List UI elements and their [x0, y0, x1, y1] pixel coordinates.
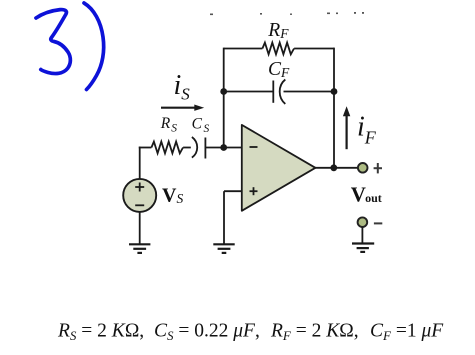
svg-text:iF: iF: [357, 112, 377, 148]
svg-text:CF: CF: [268, 59, 290, 80]
label minus at negative terminal: [374, 222, 382, 224]
wire: source top vertical: [139, 147, 141, 180]
node: inverting input junction dot: [220, 144, 227, 151]
node: output junction dot: [330, 164, 337, 171]
wire: source bottom vertical: [139, 212, 141, 244]
source VS circle: [123, 179, 156, 212]
svg-text:CF =1 μF: CF =1 μF: [370, 321, 444, 344]
svg-text:iS: iS: [174, 70, 191, 104]
svg-text:RF = 2 KΩ,: RF = 2 KΩ,: [270, 321, 359, 344]
svg-text:Vout: Vout: [351, 182, 382, 206]
capacitor CS: [192, 137, 206, 159]
op-amp U1: [242, 125, 316, 211]
terminal: output positive: [358, 163, 368, 173]
svg-text:RF: RF: [267, 20, 289, 41]
svg-text:CS: CS: [192, 115, 210, 134]
op-amp minus input sign: [250, 146, 258, 148]
wire: non-inverting input horizontal: [224, 190, 242, 192]
arrow iF: [343, 106, 350, 149]
capacitor CF: [273, 80, 285, 104]
wire: input left corner horizontal: [139, 147, 152, 149]
arrow iS: [161, 105, 204, 111]
wire: RF top-right horizontal: [294, 48, 334, 50]
terminal: output negative: [358, 217, 368, 227]
ground below negative terminal: [352, 244, 374, 252]
source VS minus sign: [135, 204, 144, 206]
resistor RS: [151, 142, 183, 154]
svg-text:CS = 0.22 μF,: CS = 0.22 μF,: [154, 321, 260, 344]
source VS plus sign: [135, 183, 144, 192]
svg-text:RS = 2 KΩ,: RS = 2 KΩ,: [57, 321, 144, 344]
wire: negative terminal stem: [361, 227, 363, 244]
svg-text:RS: RS: [160, 115, 177, 134]
wire: CS to op-amp inverting input: [205, 147, 241, 149]
node: junction dot left of CF line: [220, 88, 227, 95]
wire: RF top-left horizontal: [224, 48, 263, 50]
wire: CF left horizontal: [224, 91, 273, 93]
svg-text:VS: VS: [162, 184, 183, 206]
wire: feedback loop left vertical (inverting node up to RF): [223, 48, 225, 148]
wire: non-inverting input vertical to ground: [223, 191, 225, 244]
op-amp plus input sign: [250, 187, 258, 195]
resistor RF: [262, 43, 294, 55]
wire: between RS and CS: [183, 147, 191, 149]
label plus at output terminal: [374, 163, 382, 173]
label component values equation: [57, 321, 444, 344]
ground below op-amp: [213, 244, 234, 253]
annotation "3)" handwritten problem number: [36, 3, 104, 90]
wire: CF right horizontal: [284, 91, 335, 93]
node: junction dot right of CF line: [331, 88, 338, 95]
ground below VS: [129, 244, 150, 253]
wire: output horizontal: [315, 167, 358, 169]
wire: feedback loop right vertical (RF down to output node): [333, 48, 335, 168]
